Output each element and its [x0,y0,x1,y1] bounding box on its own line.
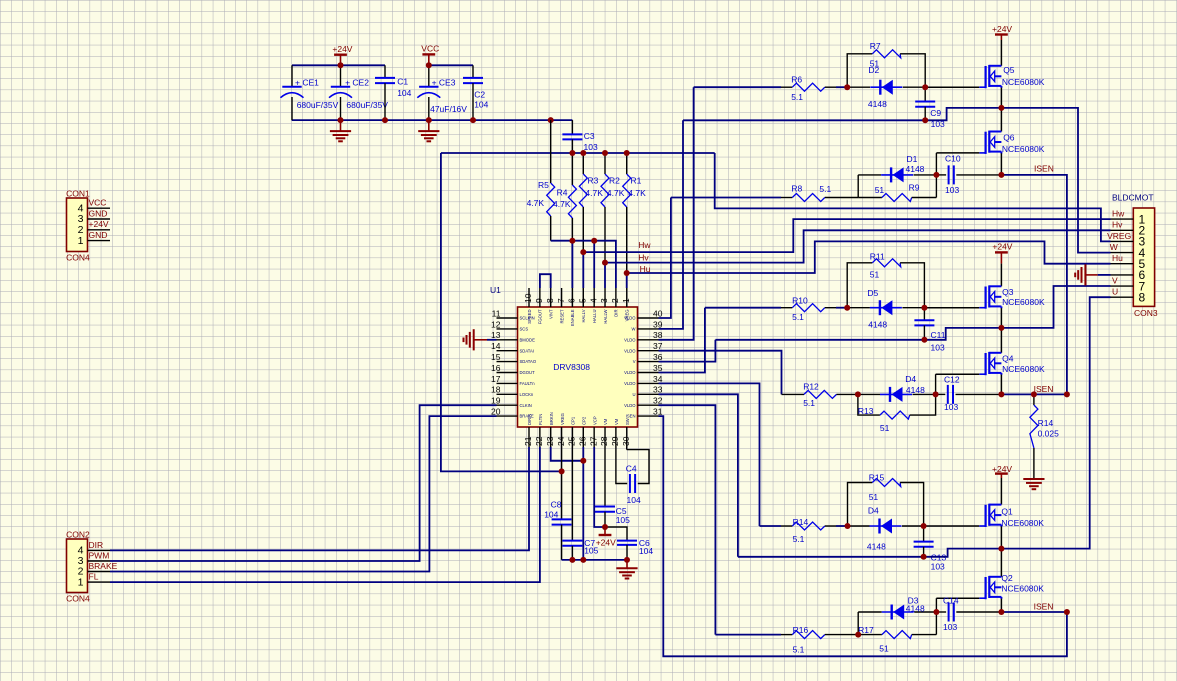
svg-text:ISEN: ISEN [1034,163,1054,173]
svg-text:17: 17 [491,374,501,384]
capacitor CE3 47uF/16V [417,65,467,120]
ground (under CE2) [330,120,351,141]
wire R5 bottom row to pins [551,241,616,288]
svg-text:9: 9 [534,298,544,303]
wire pin39 to C9 row [659,120,684,329]
chip pins bottom 21-30 [523,412,631,447]
svg-text:W: W [1110,242,1118,252]
svg-text:C11: C11 [931,330,946,340]
wire pin27 to +24V node [594,447,605,527]
svg-text:4148: 4148 [868,99,887,109]
transistor Q2 NCE6080K [979,549,1044,600]
svg-text:VLDO: VLDO [624,381,636,386]
wire pin38 to R6 row [659,87,694,340]
node ISEN top wire [1001,163,1067,394]
resistor R15 51 [848,473,924,526]
svg-text:5.1: 5.1 [819,184,831,194]
svg-text:34: 34 [653,374,663,384]
svg-text:18: 18 [491,385,501,395]
resistor R16 5.1 [781,625,858,655]
svg-text:PWM: PWM [89,550,110,560]
svg-text:CON4: CON4 [66,594,90,604]
svg-text:U1: U1 [490,285,501,295]
svg-text:1: 1 [78,235,84,247]
resistor R2 4.7K [601,153,625,263]
svg-text:CP1: CP1 [571,416,576,425]
wire pin36 to C11 row [659,340,716,362]
node Hw wire [583,219,1110,252]
svg-text:R3: R3 [588,175,599,185]
svg-text:VCC: VCC [89,198,107,208]
svg-text:LOCKn: LOCKn [520,392,534,397]
svg-text:4148: 4148 [868,319,887,329]
svg-text:R12: R12 [803,382,819,392]
svg-text:R11: R11 [870,252,885,262]
svg-text:+24V: +24V [89,219,109,229]
svg-text:DGOUT: DGOUT [520,370,536,375]
svg-text:1: 1 [78,576,84,588]
svg-text:10: 10 [523,293,533,303]
svg-text:5.1: 5.1 [793,644,805,654]
power symbol +24V (Q3) [992,242,1012,264]
svg-text:Q4: Q4 [1002,354,1014,364]
svg-text:HALLW: HALLW [603,309,608,323]
svg-text:5.1: 5.1 [791,92,803,102]
resistor R4 4.7K [553,153,576,241]
wire pin26 column [582,447,584,560]
svg-text:RESET: RESET [559,309,564,323]
svg-text:R4: R4 [557,188,568,198]
wire pin34 to R14 row [659,383,760,526]
resistor R17 51 [858,625,936,654]
svg-text:19: 19 [491,396,501,406]
svg-text:32: 32 [653,396,663,406]
svg-text:SPEED: SPEED [527,310,532,324]
svg-text:CP2: CP2 [582,416,587,425]
svg-text:104: 104 [544,510,558,520]
svg-text:R10: R10 [792,296,808,306]
wire pins below H dots [583,252,626,288]
svg-text:U: U [1112,287,1118,297]
resistor R13 51 [858,394,936,433]
svg-text:ISEN: ISEN [626,414,636,419]
wire VREG drop to pin24 [441,153,562,471]
capacitor C4 104 [616,447,649,505]
transistor Q6 NCE6080K [979,108,1044,154]
svg-text:VCC: VCC [421,44,439,54]
resistor R5 4.7K [527,120,555,241]
junction dots section W [844,84,1004,178]
svg-text:25: 25 [567,436,577,446]
svg-text:BLDCMOT: BLDCMOT [1112,192,1154,202]
svg-text:33: 33 [653,385,663,395]
wire PWM to pin19 [110,405,497,561]
wire VREG rail [441,152,715,154]
svg-text:R1: R1 [631,175,642,185]
svg-text:VM: VM [603,418,608,425]
svg-text:4148: 4148 [906,603,925,613]
svg-text:C14: C14 [943,596,959,606]
wire pin33 to C13 row [659,394,738,557]
svg-text:DRV8308: DRV8308 [553,362,590,372]
wire FL to pin22 [110,447,540,582]
svg-text:VREG: VREG [1107,231,1131,241]
node Hu wire [627,241,1111,274]
capacitor C3 103 [562,120,598,153]
svg-text:51: 51 [870,269,880,279]
junction dots section V [844,305,1070,398]
diode D3 4148 [858,596,936,635]
svg-text:HALLU: HALLU [592,310,597,324]
svg-text:Hw: Hw [638,240,651,250]
wire Q3 source to V node [1000,308,1002,328]
wire Q4 source to ISEN mid [1000,375,1002,395]
svg-text:4148: 4148 [906,385,925,395]
ground (under CE3) [418,120,439,141]
svg-text:20: 20 [491,407,501,417]
svg-text:C3: C3 [584,131,595,141]
svg-text:+ CE3: + CE3 [432,78,456,88]
svg-text:+24V: +24V [332,44,352,54]
svg-text:680uF/35V: 680uF/35V [346,100,388,110]
svg-text:C8: C8 [551,500,562,510]
svg-text:R7: R7 [870,41,881,51]
svg-text:Q6: Q6 [1003,132,1015,142]
svg-text:103: 103 [584,142,598,152]
wire U phase to CON3 pin8 [1001,297,1110,548]
svg-text:R14: R14 [1038,418,1054,428]
capacitor C12 103 [936,375,1002,412]
svg-text:Q2: Q2 [1001,573,1013,583]
svg-text:4148: 4148 [867,542,886,552]
connector CON2 [66,529,118,603]
svg-text:NCE6080K: NCE6080K [1002,144,1045,154]
svg-text:39: 39 [653,319,663,329]
capacitor C6 104 [605,527,653,560]
svg-text:4.7K: 4.7K [553,199,571,209]
svg-text:+24V: +24V [992,24,1012,34]
svg-text:SW: SW [625,418,630,425]
svg-text:W: W [632,327,636,332]
resistor R14 0.025 shunt [1030,394,1059,479]
resistor R11 51 [847,252,924,308]
wire Q2 source to ISEN bottom [1000,599,1002,612]
svg-text:R14: R14 [793,517,809,527]
junction dots cap bank [338,62,554,123]
svg-text:FLTIN: FLTIN [538,414,543,425]
svg-text:R5: R5 [538,180,549,190]
svg-text:5.1: 5.1 [793,534,805,544]
svg-text:47uF/16V: 47uF/16V [430,104,467,114]
svg-text:DIR: DIR [614,310,619,317]
svg-text:VLDO: VLDO [624,403,636,408]
svg-text:Hu: Hu [640,264,651,274]
svg-text:Hu: Hu [1112,253,1123,263]
resistor R6 5.1 [781,75,836,103]
svg-text:NCE6080K: NCE6080K [1002,77,1045,87]
svg-text:36: 36 [653,352,663,362]
junction dots H lines [580,249,629,276]
svg-text:51: 51 [875,185,885,195]
power symbol VCC [421,44,439,66]
svg-text:4.7K: 4.7K [585,188,603,198]
capacitor C7 105 [562,447,598,560]
wire C9 row (SHW) [683,108,1001,120]
svg-text:29: 29 [610,436,620,446]
svg-text:D1: D1 [907,154,918,164]
wire R16 row (GLU) [715,634,781,636]
svg-text:24: 24 [556,436,566,446]
svg-text:V: V [633,359,636,364]
svg-text:SCS: SCS [520,327,529,332]
wire VCC rail [429,64,473,66]
svg-text:103: 103 [944,402,958,412]
svg-text:680uF/35V: 680uF/35V [297,100,339,110]
capacitor C2 104 [463,65,489,120]
svg-text:NCE6080K: NCE6080K [1001,583,1044,593]
transistor Q4 NCE6080K [979,328,1045,375]
svg-text:103: 103 [943,622,957,632]
ground (CON3 pin6) [1075,264,1110,285]
wire W phase to CON3 pin4 [1001,108,1110,253]
wire VREG to CON3 pin3 [715,153,1111,241]
junction dots section U [845,523,1070,638]
svg-text:23: 23 [545,436,555,446]
ground (R14 shunt) [1023,479,1044,489]
svg-text:CON2: CON2 [66,529,90,539]
capacitor CE1 680uF/35V [281,65,339,120]
wire GND row bottom cluster [562,559,627,561]
svg-text:C2: C2 [474,89,485,99]
svg-text:BRKIN: BRKIN [549,412,554,425]
wire Q6 gate node [936,153,979,198]
svg-text:8: 8 [545,298,555,303]
capacitor C1 104 [375,65,412,120]
svg-text:D4: D4 [868,505,879,515]
svg-text:+24V: +24V [596,537,616,547]
svg-text:FGOUT: FGOUT [538,309,543,324]
svg-text:C10: C10 [945,153,961,163]
svg-text:4.7K: 4.7K [527,198,545,208]
wire pin40 to R8 row [659,198,671,319]
capacitor C9 103 [915,87,945,129]
wire DIR to pin21 [110,447,529,550]
svg-text:28: 28 [599,436,609,446]
wire bridge pins 8-9 [540,274,551,288]
svg-text:R15: R15 [869,473,885,483]
svg-text:0.025: 0.025 [1038,429,1060,439]
svg-text:11: 11 [492,308,501,318]
diode D2 4148 [847,65,925,109]
wire V phase to CON3 pin7 [1001,286,1110,328]
svg-text:5.1: 5.1 [803,398,815,408]
wire GND rail [292,119,573,121]
svg-text:26: 26 [578,436,588,446]
svg-text:5: 5 [578,298,588,303]
svg-text:35: 35 [653,363,663,373]
wire +24V rail [292,64,385,66]
svg-text:VM: VM [614,418,619,425]
svg-text:27: 27 [588,436,598,446]
capacitor C10 103 [936,153,1001,195]
svg-text:CON4: CON4 [66,253,90,263]
svg-text:+ CE2: + CE2 [345,78,369,88]
junction dots VREG rail [569,150,629,156]
resistor R9 51 [858,183,936,202]
svg-text:CON3: CON3 [1134,308,1158,318]
svg-text:+24V: +24V [992,464,1012,474]
transistor Q3 NCE6080K [979,264,1045,309]
wire BRAKE to pin20 [110,416,497,571]
ground (bottom cluster) [616,560,637,579]
chip pins top 10-1 [523,288,631,326]
svg-text:VLDO: VLDO [624,370,636,375]
svg-text:31: 31 [653,407,663,417]
svg-text:3: 3 [599,298,609,303]
svg-text:R9: R9 [909,183,920,193]
resistor R8 5.1 [781,184,858,202]
transistor Q5 NCE6080K [979,40,1044,88]
power symbol +24V (Q5) [992,24,1012,40]
capacitor CE2 680uF/35V [329,65,388,120]
svg-text:C12: C12 [944,375,960,385]
svg-text:VINT: VINT [549,309,554,319]
svg-text:CLKIN: CLKIN [520,403,532,408]
svg-text:Q1: Q1 [1001,506,1013,516]
diode D4 4148 (mid) [858,374,936,402]
svg-text:4.7K: 4.7K [628,188,646,198]
svg-text:ISEN: ISEN [1034,384,1054,394]
resistor R3 4.7K [579,153,603,252]
chip pins right 40-31 [624,308,663,418]
svg-text:104: 104 [474,100,488,110]
svg-text:NCE6080K: NCE6080K [1001,518,1044,528]
svg-text:104: 104 [639,546,653,556]
wire pin23 join pin26 [551,447,584,461]
svg-text:GND: GND [89,230,108,240]
wire R8 row (GLW) [671,197,781,199]
svg-text:104: 104 [397,88,411,98]
svg-text:13: 13 [491,330,501,340]
svg-text:Q5: Q5 [1003,65,1015,75]
svg-text:Hv: Hv [1112,220,1123,230]
svg-text:105: 105 [616,515,630,525]
svg-text:30: 30 [621,436,631,446]
svg-text:51: 51 [869,492,879,502]
svg-text:4: 4 [588,298,598,303]
svg-text:ISEN: ISEN [1034,602,1054,612]
wire pin37 to R12 row [659,351,782,395]
svg-text:GND: GND [89,208,108,218]
svg-text:SDATAO: SDATAO [520,359,537,364]
wire pin31 to ISEN bottom [659,416,1067,656]
connector CON1 [66,188,110,262]
junction dots R5 row [569,238,597,244]
svg-text:51: 51 [880,423,890,433]
wire C13 row (SHU) [738,549,1002,557]
capacitor C8 104 [544,447,571,560]
svg-text:Hv: Hv [638,252,649,262]
wire Q1 source to U node [1000,526,1002,548]
svg-text:38: 38 [653,330,663,340]
svg-text:SDATAI: SDATAI [520,348,535,353]
power symbol +24V (Q1) [992,464,1012,478]
svg-text:NCE6080K: NCE6080K [1002,297,1045,307]
svg-text:V: V [1112,275,1118,285]
svg-text:Hw: Hw [1112,209,1125,219]
svg-text:103: 103 [931,343,945,353]
svg-text:14: 14 [491,341,501,351]
diode D4 4148 (bottom) [848,505,924,551]
power symbol +24V (inverted, C5/C6) [596,527,616,547]
svg-text:DIR: DIR [89,540,104,550]
svg-text:4.7K: 4.7K [607,188,625,198]
svg-text:CON1: CON1 [66,188,90,198]
svg-text:40: 40 [653,308,663,318]
op-amp U1 DRV8308 body [490,285,638,427]
svg-text:C1: C1 [397,77,408,87]
node ISEN bottom wire [1001,602,1067,613]
svg-text:103: 103 [931,562,945,572]
svg-text:U: U [632,392,635,397]
svg-text:NCE6080K: NCE6080K [1002,364,1045,374]
svg-text:R2: R2 [609,175,620,185]
wire gate V high [705,307,979,309]
svg-text:7: 7 [556,298,566,303]
svg-text:+ CE1: + CE1 [295,78,319,88]
resistor R1 4.7K [623,153,646,273]
svg-text:VLDO: VLDO [624,348,636,353]
svg-text:D4: D4 [905,374,916,384]
svg-text:VLDO: VLDO [624,337,636,342]
svg-text:C4: C4 [626,463,637,473]
svg-text:ENABLE: ENABLE [570,309,575,326]
svg-text:8: 8 [1139,290,1146,304]
junction dots bottom cluster [559,458,630,563]
svg-text:R16: R16 [793,625,809,635]
wire gate W high [694,86,980,88]
diode D5 4148 [847,288,924,329]
capacitor C13 103 [914,526,947,572]
wire Q6 source to ISEN [1000,153,1002,175]
svg-text:104: 104 [627,495,641,505]
svg-text:BMODE: BMODE [520,337,536,342]
svg-text:FL: FL [89,572,99,582]
svg-text:D2: D2 [868,65,879,75]
svg-text:R13: R13 [858,406,874,416]
capacitor C5 105 [595,447,630,527]
svg-text:37: 37 [653,341,663,351]
diode D1 4148 [858,154,936,197]
svg-text:D5: D5 [867,288,878,298]
svg-text:1: 1 [621,298,631,303]
wire pin32 to R16 row [659,405,716,634]
connector CON3 BLDCMOT [1107,192,1158,318]
svg-text:DIRIN: DIRIN [527,414,532,425]
resistor R12 5.1 [782,382,858,408]
svg-text:R8: R8 [791,184,802,194]
svg-text:22: 22 [534,436,544,446]
wire Q2 gate node [936,598,979,634]
svg-text:FAULTn: FAULTn [520,381,536,386]
svg-text:VCP: VCP [592,416,597,425]
node ISEN mid wire [1001,384,1067,394]
svg-text:21: 21 [523,436,533,446]
transistor Q1 NCE6080K [979,478,1044,528]
svg-text:5.1: 5.1 [792,312,804,322]
capacitor C11 103 [914,308,945,353]
resistor R14 5.1 (gate) [781,517,836,544]
